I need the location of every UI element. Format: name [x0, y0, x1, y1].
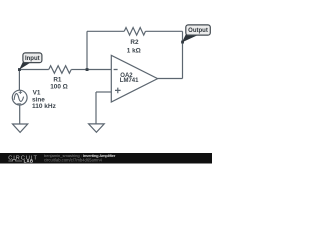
ground (V1): [13, 124, 28, 132]
resistor R1: [49, 66, 72, 74]
svg-text:LAB: LAB: [24, 159, 34, 164]
wire feedback vertical right: [182, 31, 184, 78]
svg-text:1 kΩ: 1 kΩ: [127, 48, 141, 55]
resistor R2: [124, 28, 145, 36]
svg-text:100 Ω: 100 Ω: [50, 84, 68, 91]
wire top rail left to R2: [87, 30, 124, 32]
junction dot output flag node: [181, 41, 184, 44]
svg-text:Output: Output: [188, 28, 208, 34]
svg-text:R2: R2: [130, 39, 139, 46]
wire R1 to junction A: [71, 69, 87, 71]
junction dot input node: [18, 68, 21, 71]
wire op-amp non-inverting input: [96, 91, 111, 93]
op-amp plus sign: [115, 88, 121, 94]
node flag Input pointer: [19, 62, 29, 70]
svg-text:110 kHz: 110 kHz: [32, 103, 57, 110]
svg-text:LM741: LM741: [120, 78, 139, 84]
watermark bar: [0, 153, 212, 164]
node flag Output pointer: [182, 33, 198, 42]
wire junction A to op-amp inverting input: [87, 69, 111, 71]
svg-text:circuitlab.com/c/7mb4d65amn4: circuitlab.com/c/7mb4d65amn4: [44, 158, 103, 163]
wire feedback vertical left: [86, 31, 88, 69]
wire input node to R1: [19, 69, 48, 71]
wire input node down to V1: [18, 70, 20, 91]
wire V1 to ground: [19, 105, 21, 124]
wire non-inverting input down to ground: [95, 92, 97, 124]
op-amp U1 triangle: [111, 55, 157, 102]
node flag Output box: [186, 25, 211, 35]
node flag Input box: [23, 53, 42, 63]
ground (non-inverting input): [89, 124, 105, 132]
svg-text:Input: Input: [25, 56, 40, 62]
CircuitLab logo: waveform line: [8, 160, 22, 162]
op-amp minus sign: [114, 69, 118, 71]
wire R2 to top right corner: [146, 30, 183, 32]
wire op-amp output: [158, 78, 183, 80]
junction dot A (R1 / feedback / op-amp input): [86, 68, 89, 71]
voltage source V1: [12, 90, 27, 105]
